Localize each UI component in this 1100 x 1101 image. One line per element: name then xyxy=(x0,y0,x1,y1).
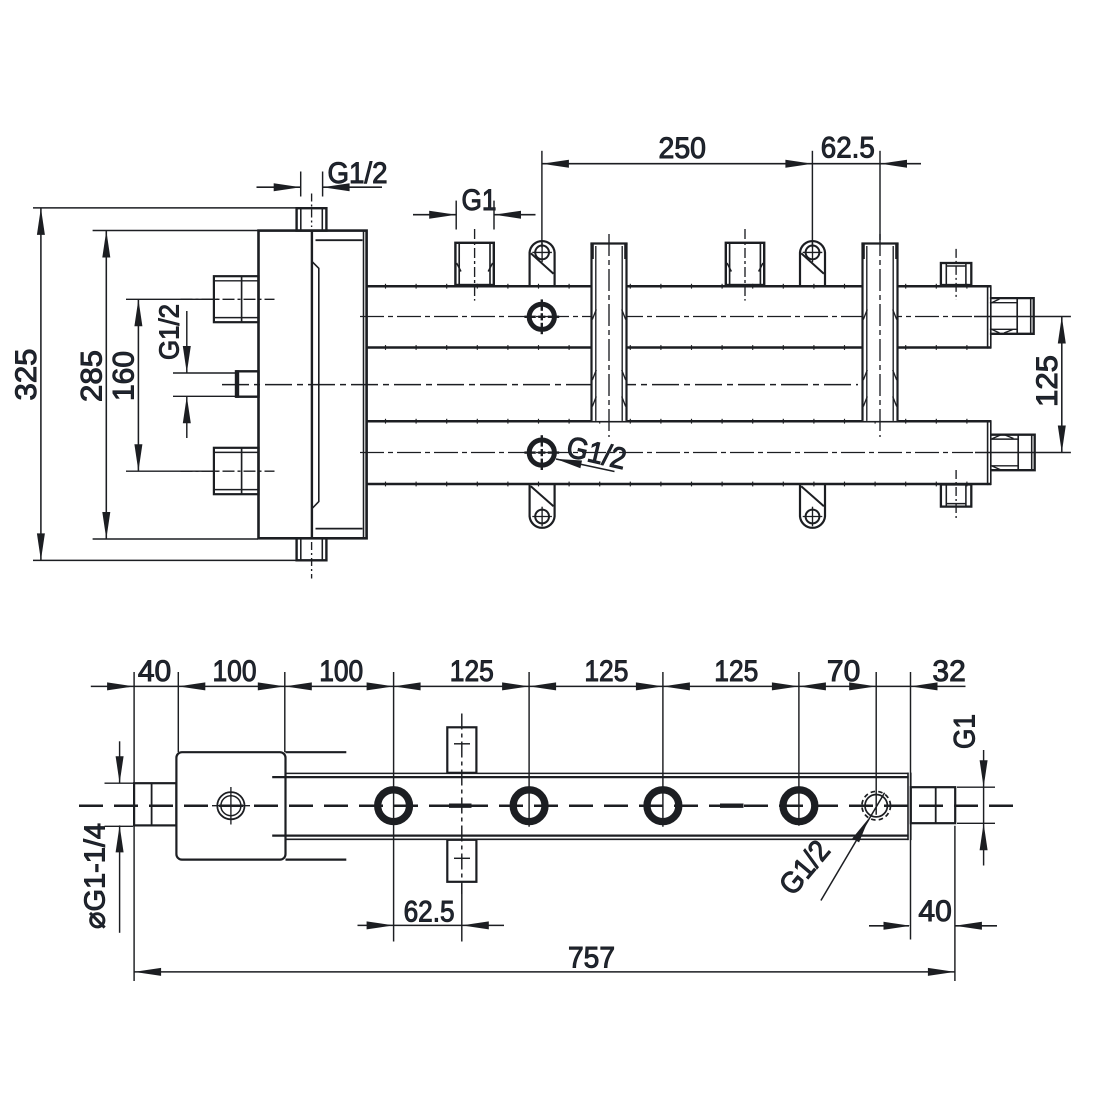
plan block top side line xyxy=(286,751,347,753)
plan dimension G1 right xyxy=(957,750,995,866)
label 757 xyxy=(568,942,615,975)
label G1 plan xyxy=(949,714,982,749)
G1/2 hole on upper bar xyxy=(524,299,559,334)
svg-text:125: 125 xyxy=(714,655,758,688)
svg-text:G1/2: G1/2 xyxy=(328,157,388,190)
svg-text:125: 125 xyxy=(584,655,628,688)
plan dimension G1-1/4 xyxy=(105,741,134,933)
centerline of pillar #2 xyxy=(879,234,881,437)
nipple axis upper xyxy=(974,316,1071,318)
fitting G1/2 left middle xyxy=(236,370,259,398)
svg-text:40: 40 xyxy=(138,655,171,688)
fitting G1 left top xyxy=(214,276,259,322)
label 70 plan xyxy=(827,655,860,688)
label 285 xyxy=(76,350,109,402)
dimension G1/2 top xyxy=(257,172,383,197)
label G1/2 top xyxy=(328,157,388,190)
centerline of left bottom fitting xyxy=(181,470,275,472)
label 100 first xyxy=(213,655,257,688)
separator body right weld line xyxy=(363,232,365,538)
main horizontal axis xyxy=(222,384,858,386)
plan G1 outlet hole #1 xyxy=(378,790,410,822)
dimension 125 right xyxy=(1058,317,1066,453)
plan dimension 757 xyxy=(134,968,955,976)
plan cross fitting upper xyxy=(447,727,476,773)
dimension 285 xyxy=(93,231,258,540)
label G1 top xyxy=(462,184,497,217)
plan block bottom side line xyxy=(286,858,347,860)
mounting bracket upper right xyxy=(800,241,825,285)
label G1/2 plan xyxy=(773,834,837,901)
centerline of top G1/2 fitting xyxy=(311,194,313,228)
label 62.5 xyxy=(821,131,875,164)
connecting pillar #1 xyxy=(590,244,627,421)
lower manifold bar xyxy=(367,420,991,485)
label 160 xyxy=(108,351,141,401)
dimension 250 and 62.5 xyxy=(542,151,921,248)
thick dash segment 2 xyxy=(720,804,744,808)
lower outlets axis xyxy=(360,452,973,454)
plan dimension chain line xyxy=(91,682,966,690)
plan dimension 40 right xyxy=(869,922,997,930)
svg-text:285: 285 xyxy=(76,350,109,402)
centerline of bottom G1/2 fitting xyxy=(311,542,313,579)
label 325 xyxy=(10,349,43,401)
dimension G1 top xyxy=(413,201,536,230)
mounting bracket lower left xyxy=(530,484,555,528)
centerline of G1 fitting #2 xyxy=(744,229,746,301)
label 40 plan xyxy=(138,655,171,688)
fitting G1/2 bottom of body xyxy=(297,538,327,560)
centerline of G1 fitting #1 xyxy=(474,229,476,301)
centerline of lower right fitting xyxy=(955,470,957,521)
svg-text:250: 250 xyxy=(659,132,707,165)
plan G1 outlet hole #2 xyxy=(513,790,545,822)
svg-text:100: 100 xyxy=(319,655,363,688)
label 250 xyxy=(659,132,707,165)
svg-text:325: 325 xyxy=(10,349,43,401)
svg-text:100: 100 xyxy=(213,655,257,688)
svg-text:125: 125 xyxy=(1031,355,1064,407)
separator body internal plate joint xyxy=(311,231,313,539)
label 125 right xyxy=(1031,355,1064,407)
svg-text:62.5: 62.5 xyxy=(404,896,455,929)
fitting G1 on upper bar #2 xyxy=(726,243,764,285)
fitting G1/2 lower right xyxy=(941,485,971,507)
fitting G1 left bottom xyxy=(214,448,259,494)
upper manifold bar xyxy=(367,285,991,348)
svg-text:62.5: 62.5 xyxy=(821,131,875,164)
svg-text:32: 32 xyxy=(932,655,965,688)
dimension 325 xyxy=(33,208,298,561)
plan inlet nipple G1-1/4 left xyxy=(134,783,176,825)
fitting G1 on upper bar #1 xyxy=(455,243,493,285)
thick dash segment 1 xyxy=(449,804,472,808)
mounting bracket lower right xyxy=(800,484,825,528)
connecting pillar #2 xyxy=(861,244,898,421)
svg-text:G1: G1 xyxy=(949,714,982,749)
G1/2 hole on lower bar xyxy=(524,435,559,470)
svg-text:160: 160 xyxy=(108,351,141,401)
svg-text:757: 757 xyxy=(568,942,615,975)
label G1/2 left xyxy=(154,304,185,360)
dimension 160 xyxy=(126,299,218,471)
plan G1 outlet hole #4 xyxy=(783,790,815,822)
separator body outline xyxy=(259,231,367,539)
plan dimension 62.5 xyxy=(358,884,505,942)
label 62.5 plan xyxy=(404,896,455,929)
plan separator block xyxy=(176,752,285,859)
plan G1/2 hole xyxy=(862,791,891,820)
upper outlets axis xyxy=(360,316,972,318)
separator inner bottom edge xyxy=(316,528,363,530)
label 32 plan xyxy=(932,655,965,688)
svg-text:G1/2: G1/2 xyxy=(154,304,185,360)
label 125 third xyxy=(714,655,758,688)
svg-text:⌀G1-1/4: ⌀G1-1/4 xyxy=(80,823,112,929)
svg-text:70: 70 xyxy=(827,655,860,688)
plan manifold bar xyxy=(272,773,911,841)
separator inner contour with chamfers xyxy=(312,262,319,508)
separator inner top edge xyxy=(316,239,363,241)
centerline of upper right fitting xyxy=(955,249,957,300)
outlet nipple upper right xyxy=(990,298,1034,334)
leader G1/2 lower hole xyxy=(556,459,615,472)
plan top fitting circle xyxy=(212,787,250,825)
centerline of left top fitting xyxy=(181,298,275,300)
nipple axis lower xyxy=(975,452,1071,454)
plan cross fitting centerline xyxy=(454,714,470,895)
svg-text:125: 125 xyxy=(450,655,494,688)
plan leader G1/2 xyxy=(821,793,885,901)
plan outlet nipple right xyxy=(911,787,955,823)
label 125 first xyxy=(450,655,494,688)
svg-text:G1: G1 xyxy=(462,184,497,217)
plan extension lines xyxy=(134,672,955,981)
centerline of pillar #1 xyxy=(608,234,610,437)
label 125 second xyxy=(584,655,628,688)
label 100 second xyxy=(319,655,363,688)
plan cross fitting lower xyxy=(447,840,476,882)
label G1-1/4 xyxy=(80,823,112,929)
fitting G1/2 upper right xyxy=(941,263,971,285)
mounting bracket upper left xyxy=(530,241,555,285)
plan center dashed axis xyxy=(79,804,1013,807)
weld tick marks on bars xyxy=(386,284,967,487)
outlet nipple lower right xyxy=(991,435,1035,471)
plan G1 outlet hole #3 xyxy=(647,790,679,822)
svg-text:40: 40 xyxy=(918,895,951,928)
label 40 right xyxy=(918,895,951,928)
dimension G1/2 left middle xyxy=(173,311,236,438)
label G1/2 lower hole xyxy=(563,431,629,477)
fitting G1/2 top of body xyxy=(297,208,327,230)
